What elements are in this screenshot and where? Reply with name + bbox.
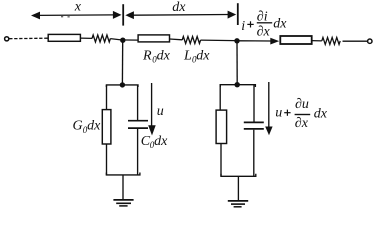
voltage arrow u <box>148 83 156 136</box>
wire <box>312 40 322 42</box>
svg-text:∂i: ∂i <box>257 9 268 24</box>
wire (left shunt top bar) <box>106 85 138 87</box>
dimension line dx <box>125 11 236 20</box>
label L0dx <box>183 48 210 64</box>
label R0dx <box>142 48 171 64</box>
svg-text:dx: dx <box>314 107 328 122</box>
wire <box>106 144 108 175</box>
resistor (box) series right <box>280 36 311 44</box>
wire <box>253 130 255 177</box>
wire <box>137 85 139 120</box>
svg-text:dx: dx <box>273 17 287 32</box>
wire (left shunt bottom bar) <box>106 173 139 175</box>
svg-text:i: i <box>241 19 245 34</box>
wire (to ground) <box>122 175 124 200</box>
wire <box>110 39 121 40</box>
tick mark between x and dx <box>122 4 124 25</box>
svg-text:u: u <box>275 105 282 120</box>
svg-text:dx: dx <box>87 119 101 134</box>
resistor (zigzag) series left <box>92 35 110 42</box>
wire <box>106 85 108 110</box>
wire <box>343 40 368 42</box>
terminal (output, right) <box>368 39 372 43</box>
inductor L0dx (zigzag) <box>182 37 200 44</box>
dimension line x <box>31 11 122 20</box>
svg-text:G: G <box>73 119 83 134</box>
wire <box>220 144 222 177</box>
label G0dx <box>73 119 102 135</box>
wire (left shunt drop) <box>121 40 123 85</box>
wire (right shunt top bar) <box>220 85 255 87</box>
svg-text:∂x: ∂x <box>257 25 271 40</box>
wire <box>137 129 139 175</box>
wire <box>125 39 138 41</box>
svg-text:dx: dx <box>196 48 210 63</box>
wire (dashed, input to series box) <box>9 37 48 40</box>
label C0dx <box>141 134 168 150</box>
capacitor C0dx <box>128 121 148 128</box>
junction node (right shunt split) <box>235 82 240 87</box>
wire (to ground) <box>237 176 239 200</box>
terminal (input, left) <box>5 37 9 41</box>
conductance G0dx (box) <box>102 110 111 144</box>
label u + du/dx dx <box>275 97 328 131</box>
resistor (box) series left <box>48 34 80 41</box>
resistor (zigzag) series right <box>322 37 340 44</box>
wire <box>201 39 235 42</box>
svg-text:∂x: ∂x <box>295 116 309 131</box>
wire <box>219 85 221 110</box>
wire <box>253 85 255 122</box>
junction node (right shunt tap) <box>234 38 239 43</box>
junction node (left shunt split) <box>120 82 125 87</box>
svg-text:dx: dx <box>157 48 171 63</box>
wire (dash-dot artifact on x dimension line) <box>61 16 70 17</box>
wire with current direction arrow <box>240 40 272 42</box>
wire <box>80 37 92 39</box>
svg-text:x: x <box>74 0 82 15</box>
wire <box>170 38 183 41</box>
svg-text:R: R <box>142 48 152 63</box>
tick mark at end of dx <box>237 3 239 25</box>
wire (right shunt bottom bar) <box>221 174 256 177</box>
svg-text:∂u: ∂u <box>295 97 309 112</box>
svg-text:dx: dx <box>172 0 186 15</box>
ground (left) <box>113 200 133 206</box>
voltage arrow u + du/dx dx <box>265 82 272 135</box>
label i + di/dx dx (current at right) <box>241 9 287 39</box>
svg-text:u: u <box>157 104 164 119</box>
junction node (left shunt tap) <box>120 38 125 43</box>
wire (right shunt drop) <box>236 41 238 85</box>
ground (right) <box>228 201 248 207</box>
resistor R0dx (box) <box>138 35 169 42</box>
conductance (box, right shunt) <box>216 110 227 143</box>
capacitor (right shunt) <box>244 122 264 128</box>
svg-text:dx: dx <box>154 134 168 149</box>
svg-text:L: L <box>183 48 192 63</box>
